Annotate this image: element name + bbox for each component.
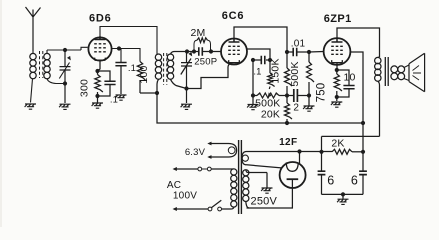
coil T2 primary <box>155 54 161 93</box>
resistor 2K <box>331 137 363 154</box>
capacitor .1 coupling <box>253 56 270 78</box>
svg-text:.1: .1 <box>110 95 118 106</box>
svg-text:250P: 250P <box>194 57 217 68</box>
svg-text:20K: 20K <box>261 109 280 121</box>
resistor 100 <box>137 62 150 94</box>
speaker <box>409 53 425 92</box>
wire <box>247 151 333 153</box>
svg-text:.1: .1 <box>253 67 261 78</box>
ground <box>337 194 348 204</box>
tube 12F <box>279 137 306 188</box>
coil T2 core <box>164 53 167 85</box>
node Q <box>307 50 311 54</box>
node Y <box>341 192 345 196</box>
node S <box>335 68 339 72</box>
wire <box>248 173 267 188</box>
wire <box>100 27 157 55</box>
svg-text:750: 750 <box>316 83 328 103</box>
svg-text:100V: 100V <box>173 190 197 201</box>
ground <box>92 103 103 108</box>
potentiometer 500K <box>253 93 287 109</box>
coil T2 secondary <box>167 52 187 89</box>
wire <box>0 0 2 227</box>
wire <box>247 49 270 60</box>
coil T1 secondary <box>44 50 64 84</box>
resistor 750 <box>316 70 343 102</box>
wire B+ rail <box>157 93 362 123</box>
svg-text:.1: .1 <box>128 63 136 74</box>
ground <box>247 105 258 110</box>
wire AC bottom <box>173 200 231 211</box>
variable capacitor VC1 <box>59 50 71 103</box>
wire <box>337 28 380 57</box>
node L <box>251 58 255 62</box>
capacitor .01 <box>287 38 309 56</box>
node R <box>307 93 311 97</box>
node H <box>184 86 188 90</box>
wire <box>322 135 380 137</box>
node I <box>192 49 196 53</box>
wire <box>309 51 324 54</box>
svg-text:150K: 150K <box>270 58 282 83</box>
node U <box>361 121 365 125</box>
wire <box>187 63 232 89</box>
node V <box>361 150 365 154</box>
ground <box>115 95 126 100</box>
node A <box>63 48 67 52</box>
svg-text:6C6: 6C6 <box>222 10 245 22</box>
wire <box>112 49 140 62</box>
node E <box>95 69 99 73</box>
variable capacitor VC2 <box>181 52 192 104</box>
node C <box>117 46 121 50</box>
svg-text:6: 6 <box>327 174 334 188</box>
ground <box>181 104 192 109</box>
capacitor 6 second <box>351 152 367 195</box>
resistor 500K grid <box>289 52 314 106</box>
svg-text:500K: 500K <box>255 97 280 109</box>
coil AC primary <box>231 169 237 209</box>
svg-text:500K: 500K <box>289 61 301 86</box>
ground <box>25 104 36 109</box>
svg-text:10: 10 <box>343 72 355 84</box>
node G <box>185 49 189 53</box>
wire <box>140 92 157 94</box>
node M <box>251 93 255 97</box>
capacitor 250P <box>187 47 221 67</box>
coil 6.3V winding <box>185 142 237 159</box>
node D <box>155 91 159 95</box>
label 250V <box>251 196 278 208</box>
ground <box>303 106 314 111</box>
svg-text:6ZP1: 6ZP1 <box>324 13 352 25</box>
coil PT core <box>239 140 242 214</box>
node X <box>319 150 323 154</box>
node J <box>209 49 213 53</box>
ground <box>331 102 342 107</box>
node O <box>285 121 289 125</box>
svg-text:.01: .01 <box>291 38 306 49</box>
coil T1 core <box>40 51 43 78</box>
svg-text:12F: 12F <box>279 137 297 148</box>
tube 6C6 <box>221 10 247 64</box>
wiper arm <box>268 60 275 97</box>
svg-text:300: 300 <box>79 79 91 97</box>
node B <box>63 81 67 85</box>
coil T1 primary <box>30 51 36 103</box>
wire <box>322 193 364 195</box>
resistor 150K <box>270 52 293 96</box>
svg-text:2M: 2M <box>191 27 206 39</box>
node N <box>285 93 289 97</box>
svg-text:6: 6 <box>351 174 358 188</box>
capacitor .1 cathode <box>98 71 119 106</box>
coil OPT primary <box>375 57 381 136</box>
wire <box>350 52 363 152</box>
svg-text:2: 2 <box>293 103 299 114</box>
capacitor 10 <box>337 70 356 97</box>
label AC 100V <box>167 180 197 201</box>
wire <box>321 136 323 151</box>
capacitor 6 first <box>318 152 335 195</box>
tube 6D6 <box>88 12 111 60</box>
wire <box>247 179 293 208</box>
node K <box>268 58 272 62</box>
resistor 20K <box>261 96 292 124</box>
wire <box>47 47 88 50</box>
wire <box>336 63 338 70</box>
capacitor 2 <box>287 89 309 114</box>
wire <box>98 61 101 71</box>
coil rectifier filament winding <box>242 152 281 168</box>
wire AC top <box>173 167 231 171</box>
svg-text:6.3V: 6.3V <box>185 147 206 158</box>
wire <box>299 152 301 165</box>
wire <box>252 60 254 104</box>
svg-text:2K: 2K <box>331 137 344 149</box>
node F <box>95 94 99 98</box>
coil HV winding <box>243 170 249 208</box>
tube 6ZP1 <box>324 13 352 65</box>
node W <box>297 149 301 153</box>
resistor 2M <box>191 27 211 52</box>
antenna <box>26 7 41 51</box>
ground <box>59 104 70 109</box>
svg-text:250V: 250V <box>251 196 278 208</box>
capacitor .1 screen <box>115 49 136 95</box>
ground <box>261 188 272 193</box>
coil OPT secondary <box>391 65 409 81</box>
node T <box>335 95 339 99</box>
svg-text:6D6: 6D6 <box>89 12 112 24</box>
svg-text:100: 100 <box>138 65 150 83</box>
resistor 300 <box>79 71 103 103</box>
wire <box>234 27 287 52</box>
node P <box>285 50 289 54</box>
coil OPT core <box>385 57 388 86</box>
